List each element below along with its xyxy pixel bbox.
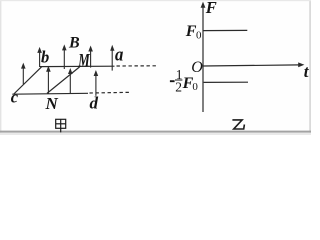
label yi (caption of right figure) drawn as strokes xyxy=(232,120,244,129)
faint scan border top xyxy=(0,0,311,1)
field arrow A1 xyxy=(21,63,26,85)
page background xyxy=(0,0,311,135)
svg-text:c: c xyxy=(11,88,19,107)
svg-text:0: 0 xyxy=(192,81,198,93)
t axis (horizontal) xyxy=(203,62,304,67)
faint scan border left xyxy=(0,0,1,135)
svg-text:M: M xyxy=(77,50,90,71)
field arrow A5 xyxy=(110,45,114,71)
svg-text:0: 0 xyxy=(196,29,202,41)
wire: left slant edge c to top corner xyxy=(14,67,42,94)
label minus one-half F0 (lower) xyxy=(170,80,175,82)
svg-text:N: N xyxy=(45,94,59,113)
field arrow I2 xyxy=(68,68,73,93)
svg-text:a: a xyxy=(115,44,123,65)
bottom edge band xyxy=(0,133,311,135)
F0 level line xyxy=(203,29,247,31)
wire: bottom near edge dashed extension xyxy=(90,91,132,94)
faint scan border right xyxy=(309,0,311,135)
svg-text:O: O xyxy=(191,59,203,76)
svg-text:F: F xyxy=(205,0,217,17)
wire: bottom near edge solid xyxy=(12,92,88,95)
minus half F0 level line xyxy=(204,81,248,83)
svg-text:F: F xyxy=(185,23,197,40)
F axis (vertical) xyxy=(201,2,206,112)
field arrow A3 (B arrow) xyxy=(62,44,67,69)
svg-text:b: b xyxy=(41,48,49,67)
field arrow I1 xyxy=(46,66,51,94)
wire: top far edge dashed extension xyxy=(117,65,158,67)
wire: diagonal N to M xyxy=(47,67,80,94)
svg-text:B: B xyxy=(68,35,80,52)
field arrow A2 xyxy=(37,47,42,67)
svg-text:2: 2 xyxy=(175,79,182,94)
bottom rule line xyxy=(0,131,311,133)
field arrow I3 xyxy=(94,70,99,96)
wire: top far edge solid xyxy=(40,65,115,67)
label jia (caption of left figure) drawn as strokes xyxy=(56,119,66,132)
field arrow A4 xyxy=(88,46,93,68)
svg-text:d: d xyxy=(90,93,99,112)
